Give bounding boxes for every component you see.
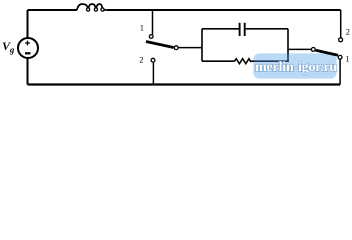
left rail wire to source bbox=[27, 10, 29, 38]
wire bottom branch into watermark bbox=[251, 60, 254, 62]
node: RC box right vertical (upper part) bbox=[287, 29, 289, 54]
svg-text:1: 1 bbox=[140, 23, 144, 33]
switch S1 pole bbox=[174, 46, 178, 50]
switch S2 contact 1 wire bbox=[339, 59, 341, 84]
switch S2 pole bbox=[311, 48, 315, 52]
wire bottom branch left bbox=[202, 60, 235, 62]
switch S1 blade bbox=[146, 42, 174, 48]
svg-text:Vg: Vg bbox=[2, 39, 15, 55]
bottom rail wire bbox=[28, 83, 341, 85]
wire R to right node (under watermark) bbox=[253, 60, 289, 62]
wire pole to RC box bbox=[178, 47, 202, 49]
svg-text:1: 1 bbox=[345, 54, 349, 64]
left rail wire below source bbox=[27, 58, 29, 85]
svg-text:2: 2 bbox=[346, 26, 350, 36]
resistor R1 bbox=[235, 59, 251, 64]
inductor L1 bbox=[77, 4, 107, 11]
node: RC box left vertical bbox=[201, 29, 203, 61]
svg-text:2: 2 bbox=[139, 54, 143, 64]
svg-text:merlin-igor.ru: merlin-igor.ru bbox=[255, 60, 337, 75]
wire RC box to switch S2 pole bbox=[288, 48, 311, 50]
switch S2 contact 1 bbox=[338, 55, 342, 59]
switch S2 contact 2 bbox=[339, 38, 343, 42]
switch S2 contact 2 wire bbox=[340, 10, 342, 38]
wire top branch right bbox=[246, 28, 288, 30]
wire top branch left bbox=[202, 28, 239, 30]
voltage source Vg bbox=[18, 38, 38, 58]
switch S1 contact 2 wire bbox=[152, 62, 154, 84]
switch S1 contact 1 wire bbox=[152, 10, 154, 34]
wire box right vertical lower part (under watermark) bbox=[287, 53, 289, 62]
top rail wire bbox=[28, 9, 78, 11]
switch S1 contact 1 bbox=[149, 35, 153, 39]
watermark merlin-igor.ru bbox=[253, 53, 336, 78]
capacitor C1 bbox=[240, 23, 245, 36]
switch S2 blade bbox=[316, 50, 338, 55]
top rail wire right bbox=[107, 9, 341, 11]
switch S1 contact 2 bbox=[151, 58, 155, 62]
